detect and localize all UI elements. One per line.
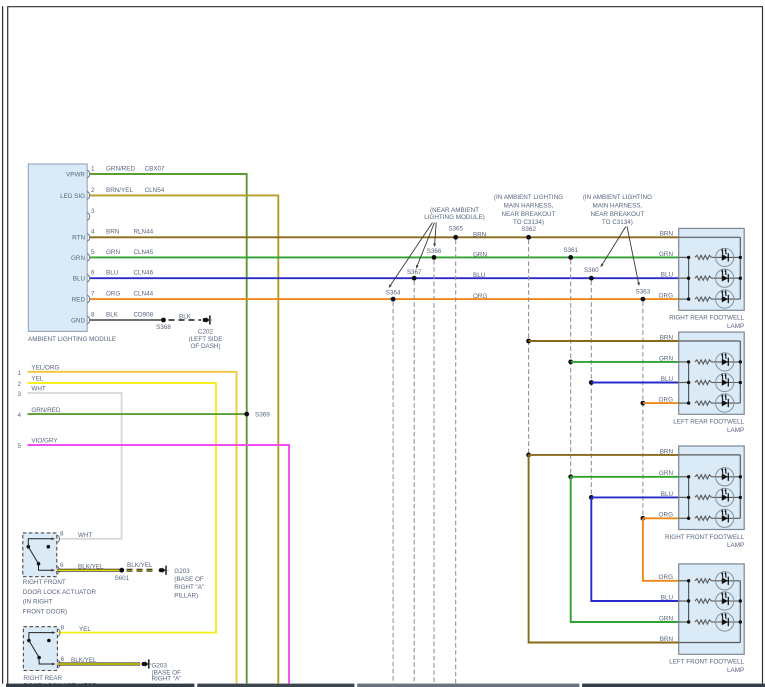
svg-text:BLU: BLU xyxy=(661,491,674,498)
svg-text:3: 3 xyxy=(91,208,95,215)
svg-text:PILLAR): PILLAR) xyxy=(174,592,198,599)
lamp internal common bus (RIGHT REAR FOOTWELL) xyxy=(679,236,741,238)
svg-text:BLU: BLU xyxy=(73,276,86,283)
svg-text:RIGHT "A": RIGHT "A" xyxy=(174,584,204,591)
svg-text:LAMP: LAMP xyxy=(727,542,744,549)
splice S363 xyxy=(641,297,646,302)
wire ORG CLN44 main run xyxy=(90,298,679,300)
svg-text:GRN/RED: GRN/RED xyxy=(31,407,60,414)
annotation arrow to S363 xyxy=(627,227,639,284)
wire GRN/RED CBX07 pin1 (horizontal+vertical to S369 and bottom) xyxy=(90,174,247,683)
svg-text:S363: S363 xyxy=(636,288,651,295)
connector C202 symbol xyxy=(203,318,207,322)
svg-text:CBX07: CBX07 xyxy=(145,165,165,172)
svg-text:OF DASH): OF DASH) xyxy=(190,343,220,350)
svg-text:VIO/GRY: VIO/GRY xyxy=(31,438,58,445)
svg-text:BRN: BRN xyxy=(106,229,120,236)
wire 1 YEL/ORG xyxy=(28,372,237,684)
lamp box LEFT REAR FOOTWELL xyxy=(679,332,745,414)
svg-text:BRN: BRN xyxy=(660,231,674,238)
switch blade xyxy=(29,641,39,658)
bottom status bar segment 2 xyxy=(197,684,354,687)
wire BLK/YEL pin6 to G203 (rear) xyxy=(58,663,140,666)
svg-text:LED SIG: LED SIG xyxy=(60,193,85,200)
svg-text:RIGHT REAR: RIGHT REAR xyxy=(23,675,62,682)
wire BRN/YEL CLN54 pin2 (horizontal+vertical to bottom) xyxy=(90,195,278,683)
svg-text:6: 6 xyxy=(91,270,95,277)
svg-text:4: 4 xyxy=(17,412,21,419)
annotation arrow to S366 xyxy=(435,223,437,246)
lamp internal common bus (LEFT REAR FOOTWELL) xyxy=(679,340,741,342)
wire ORG to left rear lamp xyxy=(643,402,679,404)
svg-text:LIGHTING MODULE): LIGHTING MODULE) xyxy=(424,214,485,221)
node GRN tap for left rear lamp xyxy=(568,360,573,365)
svg-text:BLK: BLK xyxy=(106,311,119,318)
svg-text:S366: S366 xyxy=(427,248,442,255)
dashed drop from S365 xyxy=(455,240,457,684)
svg-text:1: 1 xyxy=(91,165,95,172)
svg-text:BRN: BRN xyxy=(660,636,674,643)
svg-text:BLK: BLK xyxy=(179,313,192,320)
splice S601 xyxy=(119,568,124,573)
svg-text:GRN: GRN xyxy=(71,255,85,262)
lamp LED branch at y=497.4 (RIGHT FRONT FOOTWELL) xyxy=(679,496,689,498)
module pin 4 connector bracket xyxy=(87,233,89,241)
switch lead to pin 8 xyxy=(29,633,54,641)
wire GRN CLN45 main run xyxy=(90,256,679,258)
wire ORG vertical to left front lamp xyxy=(643,518,679,581)
dashed drop from S362 xyxy=(528,240,530,453)
wire 3 WHT xyxy=(28,393,122,539)
lamp LED branch at y=299.1 (RIGHT REAR FOOTWELL) xyxy=(679,298,689,300)
svg-text:BLU: BLU xyxy=(473,272,486,279)
wire BLU vertical to left front lamp xyxy=(591,497,678,601)
svg-text:(IN AMBIENT LIGHTING: (IN AMBIENT LIGHTING xyxy=(494,194,563,201)
splice S362 xyxy=(526,235,531,240)
svg-text:LAMP: LAMP xyxy=(727,667,744,674)
wire GRN vertical to left front lamp xyxy=(571,477,679,622)
svg-text:BRN: BRN xyxy=(660,334,674,341)
svg-text:2: 2 xyxy=(91,187,95,194)
module pin 6 connector bracket xyxy=(87,274,89,282)
switch contacts xyxy=(27,545,31,549)
svg-text:6: 6 xyxy=(60,562,64,569)
svg-text:YEL: YEL xyxy=(31,376,43,383)
door lock actuator box at 23.4,626.7 xyxy=(23,627,57,671)
svg-text:RTN: RTN xyxy=(72,235,85,242)
svg-text:G203: G203 xyxy=(174,568,190,575)
svg-text:RIGHT FRONT: RIGHT FRONT xyxy=(23,579,66,586)
svg-text:(BASE OF: (BASE OF xyxy=(174,576,204,583)
svg-text:5: 5 xyxy=(91,249,95,256)
svg-text:BLU: BLU xyxy=(661,594,674,601)
svg-text:RIGHT REAR FOOTWELL: RIGHT REAR FOOTWELL xyxy=(669,315,745,322)
svg-text:8: 8 xyxy=(91,311,95,318)
svg-text:BRN: BRN xyxy=(473,231,487,238)
lamp LED branch at y=601.0 (LEFT FRONT FOOTWELL) xyxy=(679,600,689,602)
lamp LED branch at y=361.9 (LEFT REAR FOOTWELL) xyxy=(679,361,689,363)
dashed drop from S366 xyxy=(433,260,435,684)
svg-text:NEAR BREAKOUT: NEAR BREAKOUT xyxy=(590,211,644,218)
svg-text:LEFT FRONT FOOTWELL: LEFT FRONT FOOTWELL xyxy=(669,659,744,666)
wire BRN vertical to left front lamp xyxy=(529,455,679,643)
node ORG tap for right front lamp xyxy=(641,516,646,521)
svg-text:CLN54: CLN54 xyxy=(145,187,165,194)
lamp LED branch at y=403.1 (LEFT REAR FOOTWELL) xyxy=(679,402,689,404)
lamp internal common bus (RIGHT FRONT FOOTWELL) xyxy=(679,454,741,456)
lamp internal common bus (LEFT FRONT FOOTWELL) xyxy=(679,642,741,644)
svg-text:GND: GND xyxy=(71,317,85,324)
module pin 7 connector bracket xyxy=(87,295,89,303)
ground G203 (rear) xyxy=(142,662,146,666)
wire GRN to left rear lamp xyxy=(571,361,679,363)
splice S361 xyxy=(568,255,573,260)
bottom status bar segment 1 xyxy=(6,684,194,687)
svg-text:CLN45: CLN45 xyxy=(134,249,154,256)
lamp LED branch at y=278.2 (RIGHT REAR FOOTWELL) xyxy=(679,277,689,279)
dashed drop from S361 xyxy=(570,260,572,475)
svg-text:6: 6 xyxy=(61,656,65,663)
svg-text:GRN/RED: GRN/RED xyxy=(106,165,135,172)
svg-text:S362: S362 xyxy=(521,226,536,233)
wire BLK CD908 pin8 to S368 xyxy=(90,319,164,321)
switch lead to pin 8 xyxy=(28,539,53,547)
svg-text:RIGHT FRONT FOOTWELL: RIGHT FRONT FOOTWELL xyxy=(665,534,745,541)
wire BLU to left rear lamp xyxy=(591,382,678,384)
svg-text:(NEAR AMBIENT: (NEAR AMBIENT xyxy=(430,207,479,214)
svg-text:S369: S369 xyxy=(255,412,270,419)
svg-text:LEFT REAR FOOTWELL: LEFT REAR FOOTWELL xyxy=(673,419,744,426)
svg-text:S367: S367 xyxy=(407,269,422,276)
svg-text:BLU: BLU xyxy=(661,376,674,383)
svg-text:7: 7 xyxy=(91,291,95,298)
wire BLK/YEL pin6 to S601 xyxy=(57,569,122,572)
svg-text:ORG: ORG xyxy=(106,291,120,298)
wire ORG to right front lamp xyxy=(643,517,679,519)
svg-text:(IN AMBIENT LIGHTING: (IN AMBIENT LIGHTING xyxy=(583,194,652,201)
lamp LED branch at y=580.8 (LEFT FRONT FOOTWELL) xyxy=(679,580,689,582)
svg-text:BLK/YEL: BLK/YEL xyxy=(71,657,97,664)
switch contacts xyxy=(27,639,31,643)
splice S360 xyxy=(589,276,594,281)
svg-text:S368: S368 xyxy=(156,324,171,331)
svg-text:S364: S364 xyxy=(386,290,401,297)
switch lead to pin 6 xyxy=(39,658,54,665)
pin 8 bracket xyxy=(58,629,60,637)
svg-text:ORG: ORG xyxy=(473,293,487,300)
wire 2 YEL xyxy=(28,383,217,633)
bottom status bar segment 4 xyxy=(582,684,765,687)
svg-text:8: 8 xyxy=(61,624,65,631)
svg-text:S361: S361 xyxy=(563,247,578,254)
svg-text:TO C3134): TO C3134) xyxy=(513,219,544,226)
svg-text:ORG: ORG xyxy=(659,293,673,300)
svg-text:(LEFT SIDE: (LEFT SIDE xyxy=(189,336,223,343)
node ORG tap for left rear lamp xyxy=(641,401,646,406)
svg-text:CD908: CD908 xyxy=(134,311,154,318)
splice S367 xyxy=(412,276,417,281)
svg-text:BLU: BLU xyxy=(106,270,119,277)
svg-text:ORG: ORG xyxy=(659,512,673,519)
module pin 5 connector bracket xyxy=(87,254,89,262)
wire BLU CLN46 main run xyxy=(90,277,679,279)
lamp box LEFT FRONT FOOTWELL xyxy=(679,564,745,654)
svg-text:LAMP: LAMP xyxy=(727,427,744,434)
splice S369 xyxy=(244,412,249,417)
svg-text:1: 1 xyxy=(17,370,21,377)
svg-text:RLN44: RLN44 xyxy=(134,229,154,236)
wire 4 GRN/RED to S369 xyxy=(28,413,247,415)
splice S368 xyxy=(161,318,166,323)
svg-text:ORG: ORG xyxy=(659,574,673,581)
lamp box RIGHT FRONT FOOTWELL xyxy=(679,446,745,530)
svg-text:CLN46: CLN46 xyxy=(134,270,154,277)
module pin 2 connector bracket xyxy=(87,192,89,200)
svg-text:CLN44: CLN44 xyxy=(134,291,154,298)
annotation arrow to S360 xyxy=(602,227,626,266)
svg-text:(IN RIGHT: (IN RIGHT xyxy=(23,599,53,606)
module pin 8 connector bracket xyxy=(87,316,89,324)
svg-text:RIGHT "A": RIGHT "A" xyxy=(152,676,182,683)
svg-text:GRN: GRN xyxy=(659,470,673,477)
wire BRN to left rear lamp xyxy=(529,340,679,342)
bottom status bar segment 3 xyxy=(357,684,579,687)
svg-text:WHT: WHT xyxy=(78,532,92,539)
wire BRN to right front lamp xyxy=(529,454,679,456)
svg-text:MAIN HARNESS,: MAIN HARNESS, xyxy=(504,203,554,210)
wire 5 VIO/GRY xyxy=(28,445,290,683)
switch blade xyxy=(28,547,38,564)
svg-text:GRN: GRN xyxy=(659,251,673,258)
svg-text:GRN: GRN xyxy=(473,251,487,258)
svg-text:MAIN HARNESS,: MAIN HARNESS, xyxy=(593,203,643,210)
node BRN tap for left rear lamp xyxy=(526,339,531,344)
splice S365 xyxy=(453,235,458,240)
ground G203 (front) xyxy=(159,568,163,572)
svg-text:WHT: WHT xyxy=(31,386,45,393)
svg-text:DOOR LOCK ACTUATOR: DOOR LOCK ACTUATOR xyxy=(23,589,97,596)
pin 6 bracket xyxy=(57,566,59,574)
svg-text:FRONT DOOR): FRONT DOOR) xyxy=(23,608,67,615)
svg-text:YEL/ORG: YEL/ORG xyxy=(31,365,59,372)
module pin 3 connector bracket xyxy=(87,213,89,221)
dashed drop from S364 xyxy=(392,302,394,684)
svg-text:LAMP: LAMP xyxy=(727,323,744,330)
svg-text:5: 5 xyxy=(17,443,21,450)
svg-text:NEAR BREAKOUT: NEAR BREAKOUT xyxy=(502,211,556,218)
lamp LED branch at y=382.5 (LEFT REAR FOOTWELL) xyxy=(679,382,689,384)
node BLU tap for left rear lamp xyxy=(589,380,594,385)
svg-text:BRN: BRN xyxy=(660,448,674,455)
svg-text:BRN/YEL: BRN/YEL xyxy=(106,187,133,194)
svg-text:3: 3 xyxy=(17,391,21,398)
lamp LED branch at y=257.4 (RIGHT REAR FOOTWELL) xyxy=(679,256,689,258)
ambient lighting module box xyxy=(28,164,87,331)
svg-text:BLU: BLU xyxy=(661,272,674,279)
lamp LED branch at y=622.0 (LEFT FRONT FOOTWELL) xyxy=(679,621,689,623)
svg-text:VPWR: VPWR xyxy=(66,171,85,178)
svg-text:AMBIENT LIGHTING MODULE: AMBIENT LIGHTING MODULE xyxy=(28,336,116,343)
pin 6 bracket xyxy=(58,660,60,668)
svg-text:RED: RED xyxy=(72,297,86,304)
node BRN tap for right front lamp xyxy=(526,453,531,458)
door lock actuator box at 22.8,532.9 xyxy=(23,533,57,577)
svg-text:BLK/YEL: BLK/YEL xyxy=(78,564,104,571)
svg-text:G203: G203 xyxy=(152,662,168,669)
annotation arrow to S364 xyxy=(390,223,433,287)
dashed drop from S360 xyxy=(590,281,592,495)
wire BRN RLN44 main run xyxy=(90,236,679,238)
wire BLK dashed to C202 xyxy=(169,319,202,321)
svg-text:BLK/YEL: BLK/YEL xyxy=(127,562,153,569)
annotation arrow to S367 xyxy=(417,223,435,267)
dashed drop from S363 xyxy=(642,302,644,516)
wire GRN to right front lamp xyxy=(571,476,679,478)
pin 8 bracket xyxy=(57,535,59,543)
dashed drop from S367 xyxy=(413,281,415,684)
svg-text:S601: S601 xyxy=(114,575,129,582)
svg-text:YEL: YEL xyxy=(79,626,91,633)
svg-text:GRN: GRN xyxy=(659,615,673,622)
svg-text:C202: C202 xyxy=(198,328,214,335)
lamp LED branch at y=518.3 (RIGHT FRONT FOOTWELL) xyxy=(679,517,689,519)
svg-text:8: 8 xyxy=(60,531,64,538)
lamp box RIGHT REAR FOOTWELL xyxy=(679,228,745,310)
svg-text:4: 4 xyxy=(91,229,95,236)
svg-text:S365: S365 xyxy=(448,225,463,232)
svg-text:ORG: ORG xyxy=(659,397,673,404)
lamp LED branch at y=476.8 (RIGHT FRONT FOOTWELL) xyxy=(679,476,689,478)
wire BLK/YEL dashed to G203 xyxy=(127,569,157,572)
splice S364 xyxy=(391,297,396,302)
switch lead to pin 6 xyxy=(39,564,54,571)
svg-text:TO C3134): TO C3134) xyxy=(602,219,633,226)
svg-text:S360: S360 xyxy=(584,267,599,274)
node GRN tap for right front lamp xyxy=(568,474,573,479)
node BLU tap for right front lamp xyxy=(589,495,594,500)
page frame outer-left border xyxy=(2,6,4,683)
module pin 1 connector bracket xyxy=(87,170,89,178)
svg-text:2: 2 xyxy=(17,381,21,388)
svg-text:GRN: GRN xyxy=(659,355,673,362)
splice S366 xyxy=(432,255,437,260)
svg-text:GRN: GRN xyxy=(106,249,120,256)
wire BLU to right front lamp xyxy=(591,496,678,498)
